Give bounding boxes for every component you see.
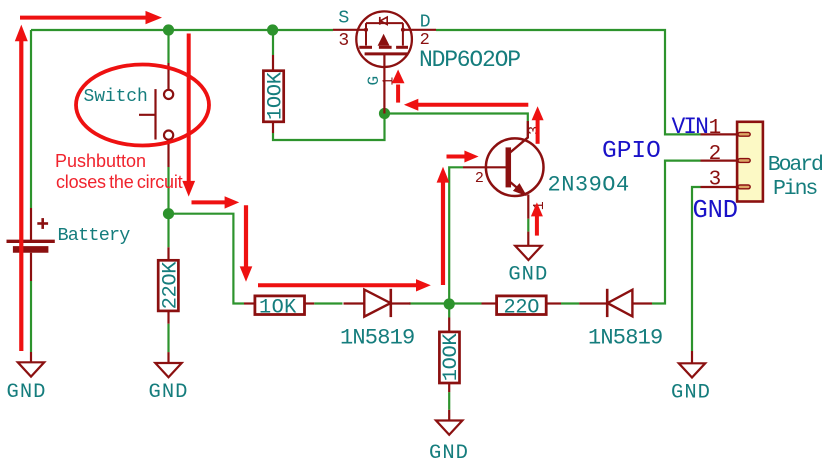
- mosfet pin label G: [365, 76, 383, 86]
- annotation arrow into base: [447, 151, 479, 163]
- annotation arrow long right above diode row: [258, 279, 431, 291]
- wire board pin 3 down to gnd: [692, 187, 701, 351]
- svg-text:VIN: VIN: [672, 114, 708, 140]
- annotation arrow down to 10K: [240, 205, 253, 282]
- net label GPIO: [602, 138, 661, 165]
- wire diode1 to junction to 220: [409, 302, 482, 304]
- svg-text:22O: 22O: [503, 296, 539, 319]
- wire 220 to diode2: [561, 302, 579, 304]
- svg-text:D: D: [420, 13, 431, 33]
- annotation arrow top horizontal: [20, 11, 162, 24]
- svg-text:2: 2: [475, 170, 484, 187]
- svg-text:NDP6O2OP: NDP6O2OP: [419, 47, 520, 73]
- svg-text:1OOK: 1OOK: [264, 71, 287, 120]
- wire left vertical from top to battery: [30, 30, 32, 208]
- junction node at top wire and switch: [163, 24, 174, 35]
- connector pin number 2: [709, 143, 722, 166]
- diode D1 value label 1N5819: [340, 326, 414, 351]
- resistor 220K: [158, 247, 182, 323]
- connector pin number 1: [709, 117, 722, 140]
- diode D1 1N5819: [344, 289, 411, 317]
- label GND emitter: [508, 264, 548, 287]
- transistor value label 2N3904: [548, 173, 630, 198]
- ground GND battery: [18, 352, 44, 377]
- mosfet value label NDP6020P: [419, 47, 520, 73]
- label GND 100K bottom: [429, 442, 469, 465]
- wire junction to 10K resistor: [169, 214, 245, 304]
- mosfet pin label D: [420, 13, 431, 33]
- svg-text:GND: GND: [429, 442, 469, 465]
- ground GND 220K: [155, 352, 181, 377]
- svg-text:GND: GND: [7, 381, 47, 404]
- mosfet U1 NDP6020P: [333, 11, 436, 113]
- svg-text:GND: GND: [508, 264, 548, 287]
- svg-text:1OOK: 1OOK: [440, 333, 463, 382]
- connector J1 board pins: [701, 122, 763, 202]
- wire junction to 220K resistor: [167, 214, 169, 248]
- annotation arrow left vertical up: [15, 25, 28, 351]
- annotation arrow small right below switch: [192, 196, 240, 208]
- wire junction down to 100K bottom resistor: [448, 304, 450, 318]
- label GND right: [671, 381, 711, 404]
- mosfet pin number 2: [420, 31, 430, 50]
- wire transistor base down to diode junction: [449, 167, 463, 304]
- junction node below switch: [163, 208, 174, 219]
- battery label: [58, 225, 131, 246]
- annotation arrow long up to base: [437, 167, 450, 285]
- svg-text:2N39O4: 2N39O4: [548, 173, 630, 198]
- svg-text:GPIO: GPIO: [602, 138, 661, 165]
- net label VIN: [672, 114, 708, 140]
- annotation ellipse around switch: [76, 65, 209, 146]
- annotation arrow up at collector: [532, 106, 544, 144]
- annotation arrow left to gate: [404, 99, 528, 111]
- net label GND blue: [693, 196, 738, 225]
- junction node at top wire and 100K: [267, 24, 278, 35]
- wire emitter green segment: [527, 219, 529, 232]
- svg-text:Switch: Switch: [84, 87, 148, 107]
- resistor 100K bottom: [439, 318, 463, 393]
- ground GND 100K bottom: [436, 410, 462, 435]
- connector pin number 3: [709, 169, 722, 192]
- transistor Q1 2N3904: [463, 121, 544, 219]
- wire 220K to gnd: [167, 324, 169, 352]
- switch S1 pushbutton: [139, 63, 173, 167]
- svg-text:1: 1: [709, 117, 722, 140]
- svg-text:closes the circuit: closes the circuit: [56, 172, 183, 192]
- svg-text:Battery: Battery: [58, 225, 131, 246]
- svg-text:1N5819: 1N5819: [588, 326, 662, 351]
- switch label: [84, 87, 148, 107]
- diode D2 1N5819: [579, 289, 652, 317]
- resistor 100K top: [263, 55, 287, 133]
- wire 100K bottom to gate junction: [273, 114, 385, 141]
- svg-text:1OK: 1OK: [259, 296, 297, 319]
- wire gate junction to transistor collector: [385, 114, 528, 122]
- wire 10K to diode1: [314, 302, 342, 304]
- mosfet pin number 3: [338, 31, 349, 51]
- resistor 220: [482, 296, 562, 319]
- mosfet pin label S: [338, 8, 349, 29]
- mosfet pin number 1: [381, 77, 398, 86]
- annotation arrow up at gate: [392, 70, 405, 103]
- wire 100K bottom resistor to gnd: [448, 392, 450, 410]
- transistor pin number 3 collector: [526, 126, 543, 135]
- svg-text:Pushbutton: Pushbutton: [55, 151, 146, 171]
- annotation arrow through switch down: [182, 34, 195, 197]
- label GND 220K: [149, 381, 189, 404]
- battery B1: [7, 208, 55, 281]
- svg-text:GND: GND: [671, 381, 711, 404]
- diode D2 value label 1N5819: [588, 326, 662, 351]
- ground GND emitter: [515, 232, 541, 260]
- wire top to switch: [167, 30, 169, 63]
- svg-text:3: 3: [338, 31, 349, 51]
- wire switch bottom to junction: [167, 167, 169, 214]
- annotation text pushbutton: [55, 151, 146, 171]
- junction node between diodes: [444, 298, 455, 309]
- svg-text:2: 2: [709, 143, 722, 166]
- wire top junction down to 100K: [272, 30, 274, 55]
- wire top horizontal left segment: [31, 29, 333, 31]
- annotation text closes the circuit: [56, 172, 183, 192]
- svg-text:1N5819: 1N5819: [340, 326, 414, 351]
- svg-text:Pins: Pins: [773, 177, 817, 201]
- resistor 10K: [244, 296, 314, 319]
- transistor pin number 1 emitter: [531, 201, 548, 210]
- wire top horizontal right segment to connector corner: [436, 30, 701, 134]
- svg-text:S: S: [338, 8, 349, 29]
- connector label Board: [768, 153, 823, 177]
- ground GND right: [679, 351, 705, 378]
- label GND battery: [7, 381, 47, 404]
- wire battery bottom to gnd: [30, 281, 32, 352]
- annotation arrow up at emitter: [531, 202, 543, 235]
- svg-text:3: 3: [709, 169, 722, 192]
- svg-text:GND: GND: [149, 381, 189, 404]
- svg-text:3: 3: [526, 126, 543, 135]
- svg-text:22OK: 22OK: [159, 261, 182, 310]
- svg-text:GND: GND: [693, 196, 738, 225]
- connector label Pins: [773, 177, 817, 201]
- wire diode2 up to board pin 2: [652, 161, 701, 304]
- svg-text:Board: Board: [768, 153, 823, 177]
- junction node at mosfet gate: [379, 108, 390, 119]
- transistor pin number 2 base: [475, 170, 484, 187]
